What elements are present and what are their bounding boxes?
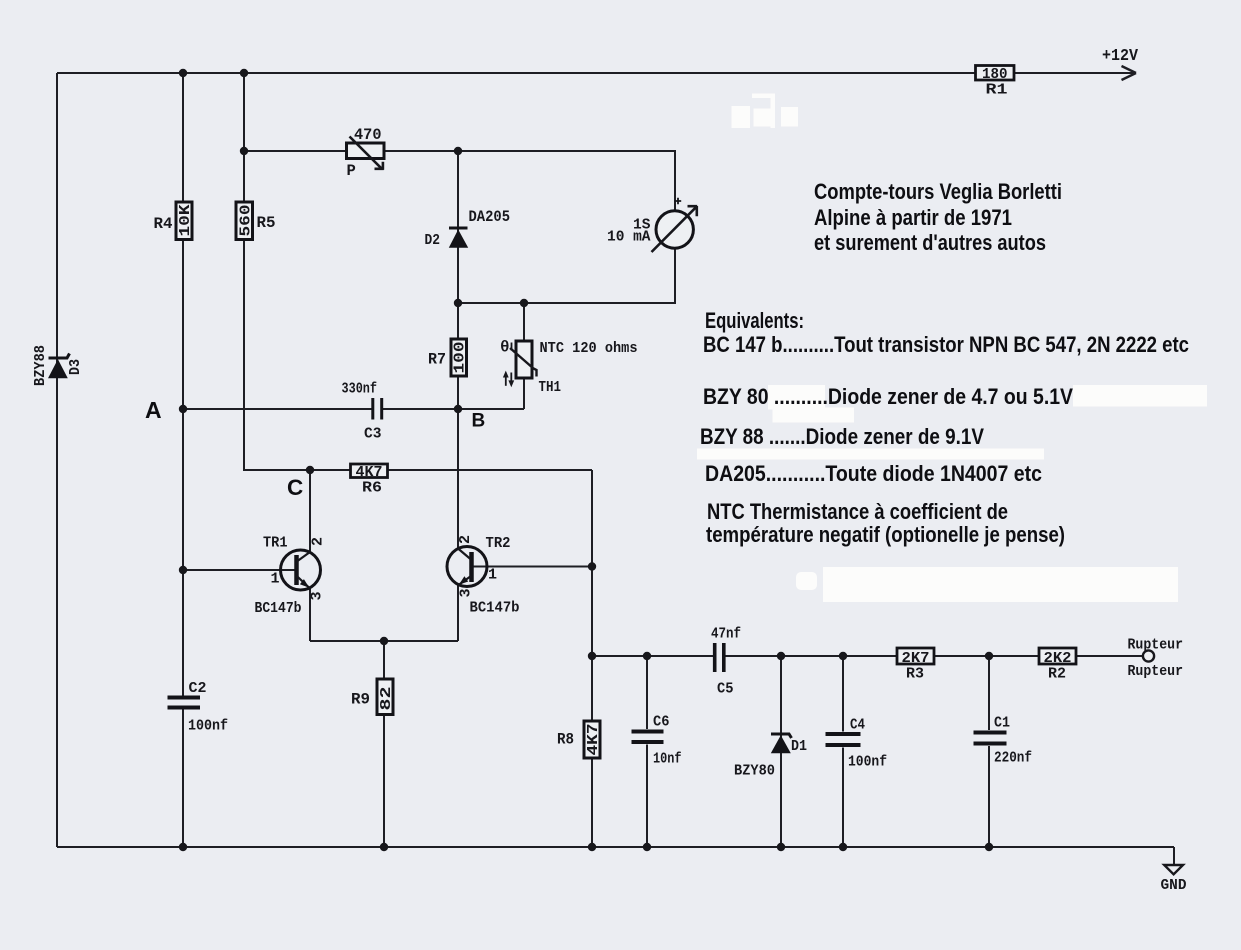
wire TR2 emitter drop (457, 586, 459, 642)
wire TR1 base (183, 569, 296, 571)
svg-text:100nf: 100nf (848, 754, 887, 771)
wire potentiometer row (244, 150, 458, 152)
capacitor C1 220nf (974, 715, 1033, 767)
wire meter bottom row (458, 248, 675, 303)
svg-text:R4: R4 (154, 215, 173, 233)
svg-text:C: C (287, 475, 303, 500)
svg-text:R5: R5 (257, 214, 276, 232)
svg-text:P: P (347, 162, 356, 180)
svg-text:θ: θ (500, 339, 510, 357)
svg-text:+12V: +12V (1102, 47, 1139, 66)
svg-text:560: 560 (238, 205, 255, 237)
wire output row to Rupteur (592, 655, 1143, 657)
wire R4/C2 column (182, 73, 184, 847)
resistor R2 (1039, 648, 1076, 683)
svg-text:2K7: 2K7 (902, 650, 930, 667)
wire top +12V rail (57, 72, 1136, 74)
resistor R1 (976, 66, 1015, 99)
svg-text:R2: R2 (1048, 666, 1066, 683)
capacitor C3 330nf (342, 381, 382, 443)
title text Compte-tours (814, 179, 1062, 255)
thermistor TH1 NTC (500, 339, 638, 397)
wire emitter rail (310, 640, 458, 642)
svg-text:R1: R1 (986, 82, 1008, 99)
wire TR2 base pin1 (472, 566, 592, 568)
svg-text:C1: C1 (994, 715, 1010, 732)
wire node B down to TR2 collector (457, 409, 459, 549)
svg-text:BZY 88 .......Diode zener de 9: BZY 88 .......Diode zener de 9.1V (700, 424, 984, 449)
wire C3 to node B and TH1 (383, 408, 525, 410)
capacitor C2 100nf (168, 680, 229, 735)
resistor R8 (557, 721, 602, 758)
svg-text:220nf: 220nf (994, 750, 1032, 767)
svg-text:R7: R7 (428, 351, 446, 369)
wire TR1 collector (309, 470, 311, 553)
capacitor C6 10nf (632, 714, 682, 768)
transistor TR2 BC147b (447, 535, 520, 617)
svg-text:3: 3 (458, 588, 475, 597)
potentiometer P 470 (347, 126, 385, 180)
wire D1 column (780, 656, 782, 847)
wire TH1 column (523, 303, 525, 409)
svg-text:R8: R8 (557, 731, 574, 749)
svg-text:470: 470 (354, 126, 382, 144)
svg-text:330nf: 330nf (342, 381, 378, 398)
wire bottom ground rail (57, 846, 1174, 848)
svg-text:R3: R3 (906, 666, 924, 683)
svg-text:BZY80: BZY80 (734, 763, 775, 780)
svg-text:1: 1 (271, 571, 280, 588)
+12V arrowhead (1122, 66, 1137, 80)
svg-text:BC147b: BC147b (255, 600, 302, 617)
svg-text:BC147b: BC147b (470, 600, 520, 617)
svg-text:A: A (145, 397, 162, 423)
resistor R4 (154, 202, 195, 240)
svg-text:Alpine à partir de 1971: Alpine à partir de 1971 (814, 205, 1012, 230)
wire GND drop (1173, 847, 1175, 865)
resistor R3 (897, 648, 934, 683)
resistor R6 (351, 464, 388, 497)
svg-text:47nf: 47nf (711, 626, 741, 643)
svg-text:B: B (472, 411, 486, 432)
svg-text:et surement d'autres autos: et surement d'autres autos (814, 230, 1046, 255)
svg-text:4K7: 4K7 (585, 724, 602, 756)
transistor TR1 BC147b (255, 535, 327, 618)
capacitor C5 47nf (711, 626, 741, 698)
svg-text:TH1: TH1 (539, 379, 562, 396)
svg-text:10K: 10K (177, 205, 194, 237)
svg-text:TR2: TR2 (486, 535, 511, 552)
wire pot to meter (458, 151, 675, 211)
wire C1 column (988, 656, 990, 847)
svg-text:180: 180 (982, 66, 1008, 83)
wire R5 column and node C row (244, 73, 592, 470)
wire left rail (56, 73, 58, 847)
wire R9 column (383, 641, 385, 847)
svg-text:BZY 80 ..........Diode zener: BZY 80 ..........Diode zener de 4.7 ou 5… (703, 384, 1073, 409)
svg-text:2: 2 (310, 537, 327, 546)
zener diode D1 BZY80 (734, 734, 807, 780)
svg-text:3: 3 (309, 591, 326, 600)
wire C4 column (842, 656, 844, 847)
white correction patches (697, 94, 1207, 603)
svg-text:Rupteur: Rupteur (1128, 637, 1184, 654)
svg-text:Rupteur: Rupteur (1128, 663, 1184, 680)
svg-text:10nf: 10nf (653, 751, 682, 768)
svg-text:TR1: TR1 (263, 535, 288, 552)
svg-text:BC 147 b..........Tout transis: BC 147 b..........Tout transistor NPN BC… (703, 332, 1189, 357)
svg-text:100: 100 (452, 342, 469, 374)
svg-text:D2: D2 (425, 232, 441, 249)
wire C6 column (646, 656, 648, 847)
svg-text:NTC 120 ohms: NTC 120 ohms (540, 340, 638, 357)
svg-text:C6: C6 (653, 714, 670, 731)
svg-text:DA205: DA205 (469, 208, 511, 226)
terminal Rupteur (1128, 637, 1184, 680)
svg-text:Equivalents:: Equivalents: (705, 308, 804, 333)
equivalents text block (700, 308, 1189, 547)
svg-text:4K7: 4K7 (356, 464, 383, 481)
svg-text:GND: GND (1161, 877, 1187, 894)
wire node A row (183, 408, 372, 410)
wire D2 column (457, 151, 459, 303)
svg-text:R6: R6 (362, 480, 382, 497)
svg-text:R9: R9 (351, 691, 370, 709)
ground GND (1161, 865, 1187, 894)
capacitor C4 100nf (826, 717, 888, 771)
svg-text:1: 1 (488, 567, 497, 584)
svg-text:C4: C4 (850, 717, 865, 734)
svg-text:2K2: 2K2 (1044, 650, 1072, 667)
svg-text:10 mA: 10 mA (607, 229, 651, 246)
meter M 10mA (607, 198, 697, 252)
svg-text:C3: C3 (364, 426, 382, 443)
svg-text:2: 2 (457, 535, 474, 544)
svg-text:Compte-tours Veglia Borletti: Compte-tours Veglia Borletti (814, 179, 1062, 204)
wire R7 column (457, 303, 459, 409)
svg-text:D1: D1 (791, 738, 807, 755)
svg-text:100nf: 100nf (188, 718, 228, 735)
resistor R5 (236, 202, 276, 240)
svg-text:BZY88: BZY88 (32, 345, 49, 386)
resistor R9 (351, 679, 395, 715)
wire R6 output column through R8 (591, 470, 593, 847)
diode D2 DA205 (425, 208, 511, 249)
svg-text:D3: D3 (67, 359, 84, 375)
svg-text:C2: C2 (189, 680, 207, 697)
svg-text:température negatif (optionell: température negatif (optionelle je pense… (706, 522, 1065, 547)
resistor R7 (428, 339, 469, 376)
wire TR1 emitter drop (309, 588, 311, 641)
svg-text:82: 82 (378, 687, 395, 711)
zener diode D3 BZY88 (32, 345, 84, 386)
svg-text:C5: C5 (717, 681, 734, 698)
svg-text:DA205...........Toute diode 1: DA205...........Toute diode 1N4007 etc (705, 461, 1042, 486)
svg-text:NTC Thermistance à coefficien: NTC Thermistance à coefficient de (707, 499, 1008, 524)
